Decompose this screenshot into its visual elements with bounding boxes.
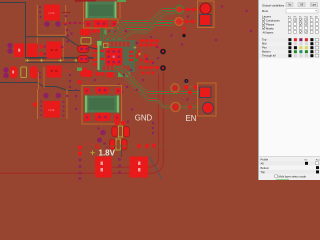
svg-text:Top: Top xyxy=(262,38,267,42)
trace bundle tB xyxy=(108,13,175,45)
test point oval TP1 xyxy=(80,29,92,36)
svg-text:Bottom: Bottom xyxy=(262,50,271,54)
green stubs right of U1 xyxy=(134,52,141,60)
small pad left of J2 xyxy=(33,103,37,107)
pads row below J3 xyxy=(90,31,100,33)
red net row3 xyxy=(142,72,145,75)
connector J1 vias xyxy=(39,6,41,8)
svg-text:Top: Top xyxy=(261,170,266,174)
svg-text:GND: GND xyxy=(135,113,153,122)
svg-text:Profile: Profile xyxy=(261,158,269,162)
svg-text:Multi layer select mode: Multi layer select mode xyxy=(279,174,307,178)
red circles above bottom squares xyxy=(78,145,82,149)
via columns bottom xyxy=(79,159,82,162)
layers rows labels xyxy=(263,18,281,34)
ring pad A feeding D1 circle xyxy=(176,6,184,14)
button No xyxy=(286,3,293,7)
row Top xyxy=(259,170,320,174)
row Bottom xyxy=(259,166,320,170)
svg-text:Err: Err xyxy=(305,159,308,162)
connector D1 courtyard xyxy=(198,1,215,28)
connector J1 top courtyard bracket xyxy=(37,5,65,35)
red pad right of TP2 xyxy=(107,72,114,78)
svg-text:Planes: Planes xyxy=(266,22,275,26)
EN square pad xyxy=(200,87,212,98)
component group left row1: vias xyxy=(7,43,12,48)
svg-text:SD, CL: SD, CL xyxy=(84,142,95,146)
connector J2 bottom courtyard bracket xyxy=(38,89,68,119)
leading checkboxes xyxy=(262,19,265,30)
left row1 small pads xyxy=(40,45,44,49)
QFN U1 bottom pads xyxy=(103,66,129,71)
red circles below J6 xyxy=(115,121,120,126)
svg-text:3V0: 3V0 xyxy=(15,79,21,83)
QFN U1 thermal vias xyxy=(107,50,110,53)
color table row stripes xyxy=(259,38,320,42)
connector J1 pad xyxy=(44,5,60,21)
QFN U1 top pads xyxy=(103,42,129,47)
svg-text:Pth: Pth xyxy=(294,15,297,18)
trace sweep to EN pads e1 xyxy=(119,66,199,93)
vias left of resistor xyxy=(66,35,69,38)
top connector J3 green corner bits xyxy=(117,0,126,2)
green pads below U1 xyxy=(118,73,123,78)
svg-text:Pad: Pad xyxy=(305,16,308,18)
connector J2 vias xyxy=(40,101,42,103)
QFN U1 left pads xyxy=(93,45,105,65)
svg-text:LINE: LINE xyxy=(48,11,55,15)
J6 bottom center pad xyxy=(95,113,111,122)
short trace net near EN xyxy=(187,82,197,88)
checkbox grid xyxy=(288,19,318,34)
green zone above QFN xyxy=(103,38,121,45)
green pads below caps xyxy=(77,68,82,72)
svg-text:PVIN: PVIN xyxy=(64,46,72,50)
black TH pad 1 xyxy=(160,49,166,55)
scattered vias xyxy=(136,42,138,44)
J6 top center pad xyxy=(96,87,110,94)
resistor outline olive xyxy=(21,67,27,78)
svg-text:Last: Last xyxy=(312,4,317,7)
top connector J3 dark strip xyxy=(75,0,96,2)
color swatches row Bottom xyxy=(288,50,318,53)
svg-text:Bottom: Bottom xyxy=(261,166,270,170)
color swatches row Mid xyxy=(288,42,318,45)
svg-text:LINE: LINE xyxy=(48,108,55,112)
vias left column xyxy=(69,74,71,76)
svg-text:Via: Via xyxy=(299,16,302,18)
caps C1 C2 stadium pads xyxy=(78,46,90,53)
svg-text:Pwr: Pwr xyxy=(262,46,267,50)
left row2 vias xyxy=(3,67,8,72)
resistor row2 pads xyxy=(110,139,116,150)
yellow plus marks near traces xyxy=(134,46,137,49)
courtyard line xyxy=(39,67,45,89)
svg-text:Masks: Masks xyxy=(266,26,274,30)
ring pad B feeding D1 square xyxy=(175,18,183,26)
svg-text:Layers: Layers xyxy=(262,15,272,19)
resistor outline olive under TP1 xyxy=(81,38,91,45)
svg-text:All: All xyxy=(261,162,264,166)
separator xyxy=(259,156,320,159)
connector D1 circle pad xyxy=(200,3,211,14)
svg-text:Conductors: Conductors xyxy=(266,18,280,22)
ring pad on trace 2 xyxy=(171,102,180,111)
QFN U1 body region xyxy=(98,40,135,72)
vias near resistors xyxy=(97,127,99,129)
color table rows xyxy=(262,38,276,58)
trace bundle tA xyxy=(105,10,177,46)
svg-text:PVIN: PVIN xyxy=(63,69,71,73)
red net row0 xyxy=(142,40,159,42)
svg-text:Global visibilities: Global visibilities xyxy=(262,3,285,7)
trace sweep to EN pads e2 xyxy=(114,66,199,108)
green underline xyxy=(276,178,289,181)
top connector J3 courtyard sides xyxy=(84,2,121,20)
row All xyxy=(259,161,320,165)
bottom square pad S1 xyxy=(95,157,112,178)
EN connector courtyard xyxy=(198,83,217,116)
connector J1 mount holes xyxy=(44,21,49,26)
svg-text:EN: EN xyxy=(186,114,197,123)
yellow plus mark xyxy=(91,151,95,156)
list empty area xyxy=(259,59,320,157)
button Last xyxy=(310,3,317,7)
top connector J3 side pads xyxy=(86,21,91,27)
keepout slate line lower xyxy=(26,57,94,59)
color swatches row Pwr xyxy=(288,46,318,49)
vias below TP2 xyxy=(94,79,96,81)
keepout slate line row2 top xyxy=(26,61,79,63)
color swatches row Top xyxy=(288,38,318,41)
svg-text:Fce: Fce xyxy=(288,16,291,18)
red net L-shape xyxy=(146,55,152,62)
svg-text:All layers: All layers xyxy=(263,30,275,34)
svg-text:Through all: Through all xyxy=(262,54,276,58)
left row2 cap oval xyxy=(10,66,18,79)
bottom connector J6 courtyard xyxy=(82,86,122,125)
red trace row under J3 xyxy=(62,22,84,24)
top connector J3 body xyxy=(86,2,117,19)
bottom square pad S2 xyxy=(130,157,149,178)
olive mark QFN corner xyxy=(104,43,109,48)
red net row2 xyxy=(141,67,163,69)
yellow plus marks xyxy=(26,59,29,62)
svg-text:1.8V: 1.8V xyxy=(99,149,116,158)
trace bundle tD xyxy=(115,23,175,47)
top connector J3 courtyard xyxy=(84,19,119,28)
connector J2 pad xyxy=(44,101,61,118)
QFN U1 center pad xyxy=(105,48,123,66)
svg-text:Mid: Mid xyxy=(262,42,267,46)
left row1 big cap pad xyxy=(47,42,62,59)
grid check marks xyxy=(294,19,307,32)
svg-text:Row: Row xyxy=(262,9,269,13)
panel background xyxy=(258,0,320,180)
left row2 big cap pad xyxy=(47,66,62,78)
left row2 cap oval 2 xyxy=(30,66,38,79)
red dots right of TP2 xyxy=(95,72,99,76)
connector J2 mount holes xyxy=(43,93,48,98)
trace from J3 to U1 xyxy=(100,28,105,44)
svg-text:1V8: 1V8 xyxy=(84,81,90,85)
board outline dark red outer xyxy=(0,72,164,173)
bottom checkbox row xyxy=(275,175,278,178)
J6 top side pads xyxy=(84,88,90,94)
connector D1 square pad xyxy=(200,15,212,26)
left row2 via pair xyxy=(38,72,41,75)
J6 bottom side pads xyxy=(84,115,90,122)
svg-text:Off: Off xyxy=(300,4,303,7)
ring pad on trace 1 xyxy=(171,84,179,92)
top connector J3 center pad xyxy=(94,20,109,28)
green pad below J3 xyxy=(102,30,107,35)
PCB canvas background copper pour xyxy=(0,0,258,180)
left row1 resistor pads xyxy=(14,44,25,58)
button Off xyxy=(298,3,305,7)
red net row1 xyxy=(141,45,163,52)
slate diagonal bottom-right xyxy=(149,156,162,179)
EN circle pad xyxy=(202,102,213,113)
J6 body xyxy=(85,96,120,113)
QFN U1 right pads xyxy=(129,51,134,61)
orange detail lines between rows xyxy=(26,37,63,63)
test point oval TP2 xyxy=(80,70,93,77)
resistor row1 pads xyxy=(112,126,118,136)
red link to D1 circle xyxy=(180,9,201,11)
red circle below TP2 xyxy=(78,80,82,84)
dropdown xyxy=(286,9,318,13)
keepout slate line left-bottom xyxy=(0,83,80,91)
svg-text:Err: Err xyxy=(310,16,313,18)
board outline dark red inner xyxy=(100,74,159,167)
courtyard line above 1.8V xyxy=(96,145,164,147)
keepout slate outline top-left xyxy=(0,3,26,58)
black TH pad 2 xyxy=(160,65,166,71)
trace bundle tC xyxy=(112,22,176,47)
QFN U1 bright green strip xyxy=(98,44,100,70)
color swatches row Through all xyxy=(288,54,318,57)
keepout slate line mid xyxy=(26,37,98,49)
stub below D1 xyxy=(182,27,186,34)
